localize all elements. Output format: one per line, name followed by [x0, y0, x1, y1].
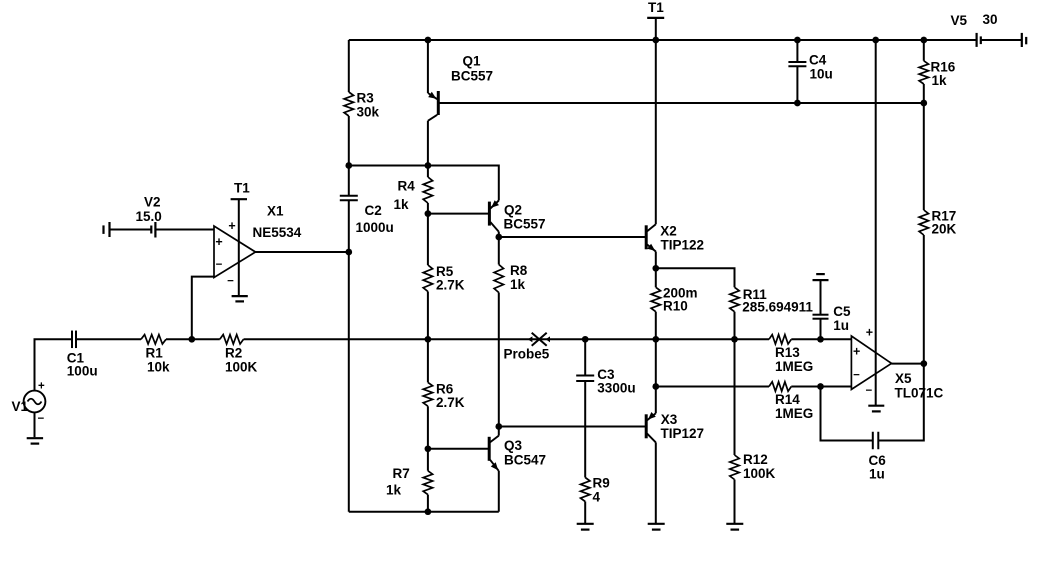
node rail-C4	[794, 37, 801, 44]
svg-text:Probe5: Probe5	[504, 347, 550, 362]
wire C3 to R9	[584, 381, 586, 478]
capacitor C4	[788, 62, 806, 66]
V1 label	[12, 399, 29, 414]
wire Q2 base	[428, 213, 490, 215]
svg-text:100K: 100K	[743, 466, 776, 481]
R16 label	[931, 60, 956, 75]
wire signal to R12	[734, 339, 736, 455]
ground below V1	[27, 438, 43, 443]
capacitor C5	[813, 315, 829, 319]
node R5-R6	[425, 336, 432, 343]
wire R3 bottom to Q2 emitter rail	[349, 166, 499, 201]
Probe5 label	[504, 347, 550, 362]
node Q2-X2base	[495, 234, 502, 241]
R7 label	[393, 466, 410, 481]
wire top supply rail	[349, 39, 924, 41]
wire C4 top feed	[796, 40, 798, 62]
X5 minus input sign	[853, 370, 860, 382]
wire V1 to ground	[34, 412, 36, 437]
voltage source V2	[104, 222, 215, 238]
svg-text:X5: X5	[895, 371, 912, 386]
C3 value label	[597, 381, 635, 396]
svg-text:C2: C2	[365, 203, 382, 218]
wire R11 to signal	[734, 312, 736, 340]
R8 value label	[510, 277, 526, 292]
T1 terminal label	[648, 0, 664, 15]
Q3 label	[504, 438, 523, 453]
node X5-output	[920, 360, 927, 367]
svg-text:TIP127: TIP127	[661, 426, 705, 441]
svg-text:1u: 1u	[869, 467, 885, 482]
svg-text:C4: C4	[809, 53, 827, 68]
V1 plus sign	[38, 381, 45, 393]
svg-text:4: 4	[593, 490, 601, 505]
wire R1 to R2	[166, 338, 220, 340]
R10 value label	[663, 286, 698, 301]
X3 label	[661, 412, 678, 427]
node C4-divider	[794, 100, 801, 107]
C5 label	[833, 304, 851, 319]
node C2-output	[345, 249, 352, 256]
svg-text:2.7K: 2.7K	[436, 277, 465, 292]
C1 value label	[67, 364, 98, 379]
svg-text:+: +	[228, 219, 235, 233]
wire Q2 collector to R8	[498, 232, 500, 265]
svg-text:BC557: BC557	[504, 217, 546, 232]
C3 label	[597, 367, 615, 382]
node R11-R12	[731, 336, 738, 343]
node rail-T1	[652, 37, 659, 44]
X5 label	[895, 371, 912, 386]
X1 plus input sign	[215, 235, 222, 249]
svg-text:R14: R14	[775, 392, 800, 407]
wire X1 output to C2 bottom	[256, 251, 349, 253]
svg-text:V1: V1	[12, 399, 29, 414]
svg-text:V5: V5	[951, 13, 968, 28]
R11 value label	[742, 300, 813, 315]
svg-text:R10: R10	[663, 299, 688, 314]
wire X5 output	[891, 363, 924, 365]
resistor R4	[423, 177, 432, 203]
svg-text:NE5534: NE5534	[253, 225, 302, 240]
wire X2 emitter to R11 top	[656, 268, 735, 287]
wire Q2 collector to X2 base	[499, 236, 646, 238]
svg-text:X3: X3	[661, 412, 678, 427]
resistor R7	[423, 471, 432, 495]
svg-text:10k: 10k	[147, 360, 170, 375]
R17 value label	[932, 222, 957, 237]
wire Q1 collector to R4	[427, 121, 429, 177]
C5 value label	[833, 318, 849, 333]
op-amp X5	[851, 336, 891, 411]
svg-text:285.694911: 285.694911	[742, 300, 813, 315]
wire X3 emitter to R14	[656, 386, 769, 388]
svg-text:1u: 1u	[833, 318, 849, 333]
C2 value label	[356, 220, 394, 235]
C4 label	[809, 53, 827, 68]
svg-text:1k: 1k	[394, 197, 410, 212]
svg-text:−: −	[38, 413, 45, 425]
R3 label	[357, 91, 375, 106]
op-amp X1	[214, 199, 256, 301]
svg-text:1k: 1k	[932, 73, 948, 88]
wire X2 emitter to R10	[655, 252, 657, 288]
X5 plus input sign	[853, 344, 860, 358]
resistor R17	[919, 210, 928, 235]
transistor X2	[646, 224, 656, 251]
resistor R12	[730, 455, 739, 480]
wire X5 power feed	[875, 40, 877, 406]
svg-text:R9: R9	[593, 476, 610, 491]
resistor R14	[769, 382, 791, 391]
wire Q3 collector to X3 base	[499, 426, 646, 428]
wire R9 to ground	[584, 502, 586, 524]
svg-text:1k: 1k	[510, 277, 526, 292]
wire C2 bottom to bottom return	[348, 200, 350, 511]
resistor R9	[581, 478, 590, 502]
wire R12 to ground	[734, 480, 736, 524]
node R8-Q3	[495, 423, 502, 430]
wire R14 to X5 inverting input	[791, 386, 851, 388]
node R7-bottom	[425, 508, 432, 515]
svg-text:TIP122: TIP122	[661, 237, 705, 252]
ground below R12	[726, 524, 743, 530]
node C3-signal	[582, 336, 589, 343]
wire C5 top to ground	[820, 280, 822, 315]
svg-text:R7: R7	[393, 466, 410, 481]
V5 value label	[983, 12, 998, 27]
resistor R10	[651, 287, 660, 311]
svg-text:R12: R12	[743, 452, 768, 467]
node rail-R16	[920, 37, 927, 44]
svg-text:−: −	[865, 385, 872, 397]
wire Q1 base to R16/R17 divider	[440, 102, 924, 104]
node C5-signal	[817, 336, 824, 343]
svg-text:100K: 100K	[225, 360, 258, 375]
wire Q3 base	[428, 448, 489, 450]
Q1 label	[463, 54, 482, 69]
resistor R11	[730, 287, 739, 311]
wire C2 top feed	[348, 166, 350, 196]
capacitor C1	[72, 331, 76, 349]
X1 minus power sign	[227, 275, 234, 287]
resistor R6	[423, 382, 432, 406]
R12 value label	[743, 466, 776, 481]
svg-text:R8: R8	[510, 263, 528, 278]
resistor R13	[769, 335, 791, 344]
R14 value label	[775, 406, 813, 421]
X5 value label	[895, 385, 944, 400]
R2 value label	[225, 360, 258, 375]
wire R3 top feed	[348, 40, 350, 92]
wire Q3 emitter to bottom return	[498, 471, 500, 512]
svg-text:1000u: 1000u	[356, 220, 394, 235]
R8 label	[510, 263, 528, 278]
svg-text:Q3: Q3	[504, 438, 523, 453]
wire R13 to X5 noninverting input	[791, 338, 851, 340]
svg-text:2.7K: 2.7K	[436, 395, 465, 410]
transistor X3	[646, 412, 656, 442]
R9 value label	[593, 490, 601, 505]
R7 value label	[386, 482, 402, 497]
X3 value label	[661, 426, 705, 441]
Q3 value label	[504, 453, 546, 468]
AC source V1	[24, 391, 46, 413]
svg-text:T1: T1	[648, 0, 664, 15]
ground below R9	[577, 524, 594, 530]
R6 label	[436, 382, 454, 397]
wire R7 to bottom return	[427, 495, 429, 512]
wire C1 to R1	[76, 338, 141, 340]
wire R3 to C2	[348, 116, 350, 166]
R9 label	[593, 476, 610, 491]
R10 label	[663, 299, 688, 314]
wire R8 to Q3 collector	[498, 293, 500, 436]
svg-text:R1: R1	[146, 346, 164, 361]
node rail-X5power	[872, 37, 879, 44]
wire bottom return	[349, 511, 499, 513]
resistor R1	[141, 335, 166, 344]
Q2 value label	[504, 217, 546, 232]
wire R5 to R6	[427, 292, 429, 383]
wire V1 riser	[35, 339, 73, 390]
svg-text:R4: R4	[398, 179, 416, 194]
R5 value label	[436, 277, 465, 292]
svg-text:R13: R13	[775, 345, 800, 360]
X2 value label	[661, 237, 705, 252]
svg-text:X1: X1	[267, 204, 284, 219]
svg-text:C5: C5	[833, 304, 851, 319]
wire X3 collector to ground	[655, 442, 657, 523]
wire X2 collector feed	[655, 40, 657, 224]
V2 label	[144, 195, 161, 210]
svg-text:R3: R3	[357, 91, 375, 106]
wire C5 bottom	[820, 319, 822, 340]
svg-text:1k: 1k	[386, 482, 402, 497]
C2 label	[365, 203, 382, 218]
capacitor C2	[340, 196, 358, 201]
wire R6 to R7	[427, 406, 429, 471]
R13 value label	[775, 359, 813, 374]
svg-text:−: −	[216, 259, 223, 271]
node R14-C6	[817, 383, 824, 390]
wire R16 bottom	[923, 84, 925, 103]
R2 label	[225, 346, 242, 361]
X1 minus input sign	[216, 259, 223, 271]
X1 T1 terminal label	[234, 181, 250, 196]
wire divider to R17	[923, 103, 925, 210]
svg-text:R2: R2	[225, 346, 242, 361]
svg-text:+: +	[38, 381, 45, 393]
inverted ground above C5	[813, 274, 829, 280]
svg-text:T1: T1	[234, 181, 250, 196]
transistor Q2	[489, 200, 499, 231]
R6 value label	[436, 395, 465, 410]
svg-text:100u: 100u	[67, 364, 98, 379]
R13 label	[775, 345, 800, 360]
X1 value label	[253, 225, 302, 240]
transistor Q3	[489, 436, 499, 471]
node R16-R17	[920, 100, 927, 107]
terminal T1 top	[647, 18, 664, 40]
svg-text:30k: 30k	[357, 105, 380, 120]
X2 label	[660, 223, 677, 238]
svg-text:TL071C: TL071C	[895, 385, 944, 400]
svg-text:15.0: 15.0	[136, 209, 162, 224]
svg-text:X2: X2	[660, 223, 677, 238]
node R4-Q2base	[425, 210, 432, 217]
capacitor C3	[576, 376, 594, 382]
wire R14 node to C6 left	[821, 387, 873, 441]
C4 value label	[810, 67, 833, 82]
resistor R2	[220, 335, 244, 344]
R11 label	[743, 287, 768, 302]
svg-text:30: 30	[983, 12, 998, 27]
V1 minus sign	[38, 413, 45, 425]
svg-text:−: −	[227, 275, 234, 287]
Q2 label	[504, 202, 522, 217]
R4 label	[398, 179, 416, 194]
svg-text:+: +	[215, 235, 222, 249]
X1 plus power sign	[228, 219, 235, 233]
resistor R3	[344, 92, 353, 116]
svg-text:1MEG: 1MEG	[775, 359, 813, 374]
resistor R8	[494, 265, 503, 293]
wire C6 right to X5 output	[878, 364, 924, 441]
svg-text:Q1: Q1	[463, 54, 482, 69]
node rail-Q1	[425, 37, 432, 44]
svg-text:V2: V2	[144, 195, 161, 210]
node R3-C2	[345, 162, 352, 169]
wire R16 top feed	[923, 40, 925, 61]
capacitor C6	[873, 432, 879, 450]
svg-text:+: +	[853, 344, 860, 358]
R14 label	[775, 392, 800, 407]
R17 label	[932, 209, 957, 224]
R16 value label	[932, 73, 948, 88]
svg-text:BC547: BC547	[504, 453, 546, 468]
svg-text:Q2: Q2	[504, 202, 522, 217]
node R10-signal	[652, 336, 659, 343]
node X2emitter	[652, 265, 659, 272]
node feedback	[188, 336, 195, 343]
voltage source V5	[924, 33, 1026, 47]
svg-text:BC557: BC557	[451, 69, 493, 84]
wire Q1 emitter feed	[427, 40, 429, 93]
wire R10 to signal	[655, 312, 657, 340]
svg-text:20K: 20K	[932, 222, 957, 237]
X1 label	[267, 204, 284, 219]
wire C3 top	[584, 339, 586, 375]
wire signal to X3 emitter node	[655, 339, 657, 413]
resistor R5	[423, 265, 432, 292]
resistor R16	[919, 61, 928, 84]
R1 label	[146, 346, 164, 361]
C1 label	[67, 350, 85, 365]
X5 plus power sign	[866, 325, 873, 339]
probe Probe5	[528, 333, 550, 346]
R1 value label	[147, 360, 170, 375]
wire feedback to X1 inverting input	[192, 277, 214, 340]
R12 label	[743, 452, 768, 467]
svg-text:+: +	[866, 325, 873, 339]
C6 value label	[869, 467, 885, 482]
wire signal R2 to R13	[244, 338, 770, 340]
R5 label	[436, 264, 454, 279]
R3 value label	[357, 105, 380, 120]
node X3emitter	[652, 383, 659, 390]
svg-text:10u: 10u	[810, 67, 833, 82]
svg-text:−: −	[853, 370, 860, 382]
wire C4 bottom	[796, 66, 798, 103]
V5 label	[951, 13, 968, 28]
transistor Q1	[428, 91, 438, 121]
V2 value label	[136, 209, 162, 224]
node R6-Q3base	[425, 445, 432, 452]
wire R17 to X5 output	[923, 235, 925, 364]
svg-text:1MEG: 1MEG	[775, 406, 813, 421]
X5 minus power sign	[865, 385, 872, 397]
node Q1-R4	[425, 162, 432, 169]
R4 value label	[394, 197, 410, 212]
wire R4 to R5	[427, 203, 429, 265]
ground below X3	[648, 524, 665, 530]
Q1 value label	[451, 69, 493, 84]
C6 label	[869, 453, 887, 468]
svg-text:3300u: 3300u	[597, 381, 635, 396]
